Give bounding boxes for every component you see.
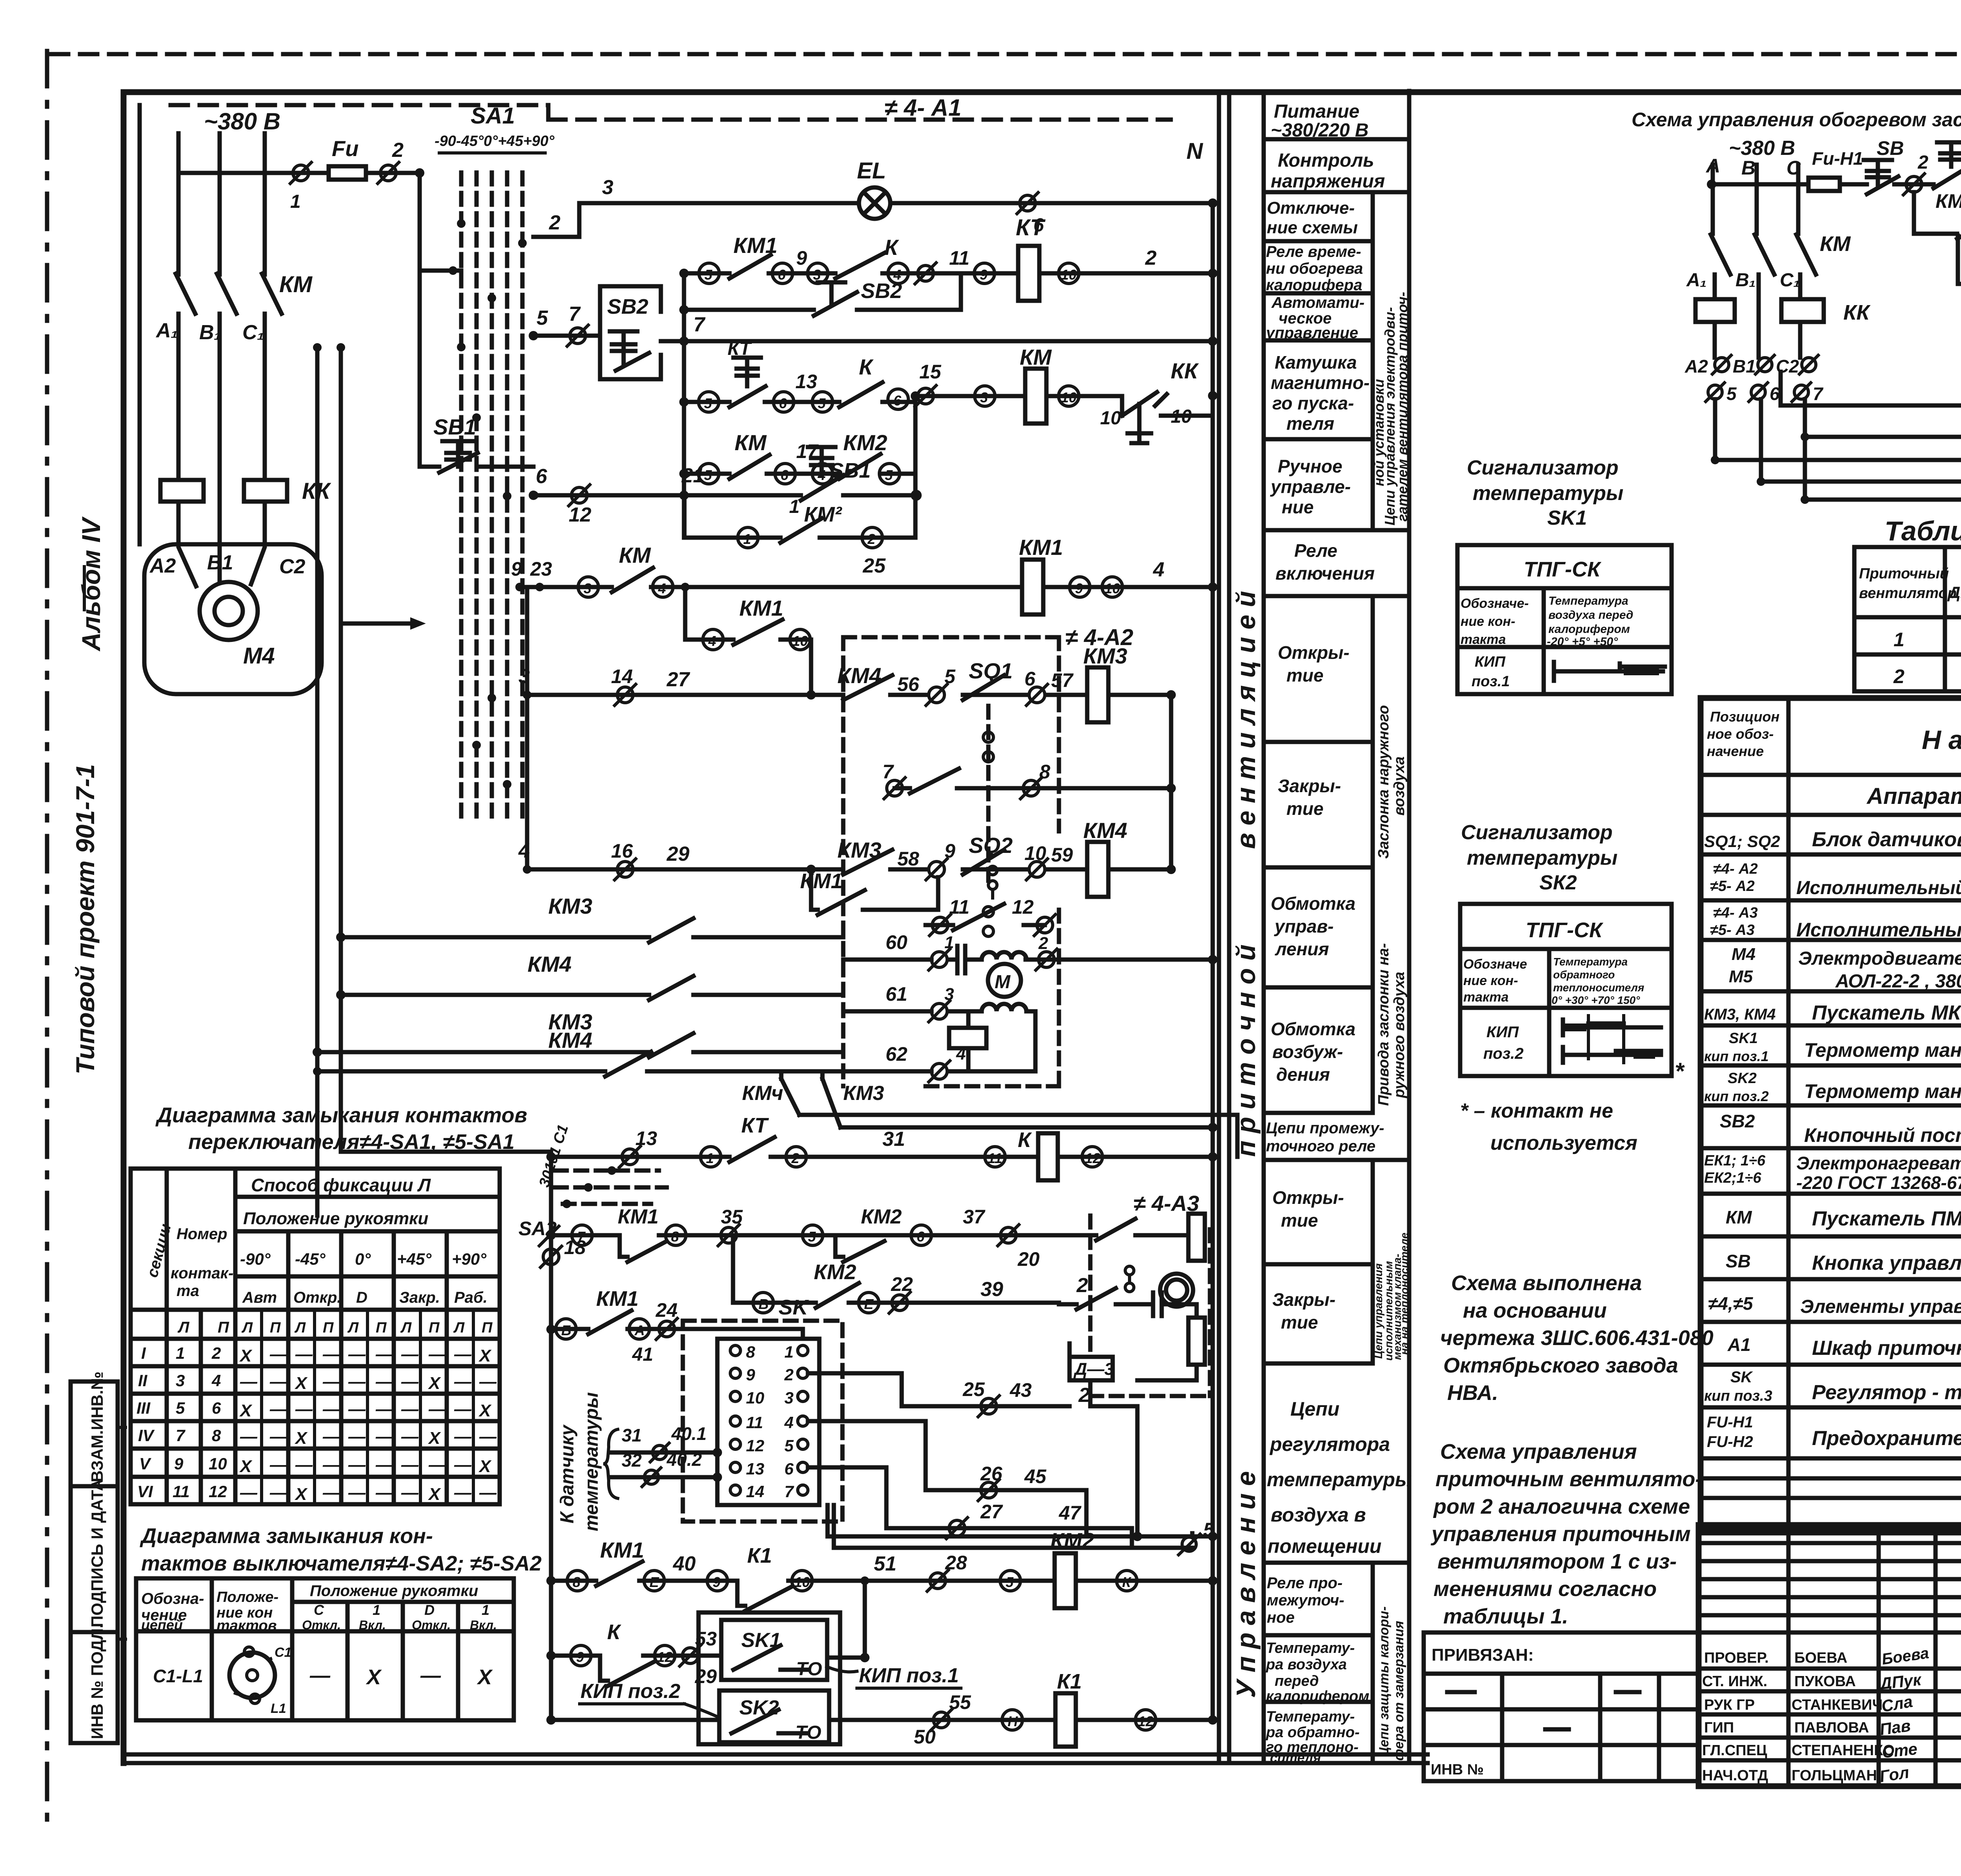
svg-text:на на теплоносителе: на на теплоносителе: [1398, 1232, 1410, 1355]
contact KM2: [835, 1235, 884, 1262]
svg-text:—: —: [240, 1483, 258, 1502]
svg-text:—: —: [322, 1455, 340, 1474]
contact bar diagrams 2: [1563, 1020, 1661, 1063]
svg-text:Привода заслонки на-: Привода заслонки на-: [1375, 943, 1392, 1106]
svg-text:управление: управление: [1265, 324, 1358, 342]
svg-text:58: 58: [897, 848, 919, 870]
svg-text:Вкл.: Вкл.: [359, 1618, 386, 1632]
svg-text:—: —: [240, 1427, 258, 1446]
svg-text:12: 12: [1138, 1713, 1153, 1729]
svg-text:—: —: [375, 1372, 393, 1391]
svg-text:Сте: Сте: [1881, 1740, 1918, 1761]
svg-text:СТЕПАНЕНКО: СТЕПАНЕНКО: [1792, 1742, 1895, 1759]
svg-text:калорифера: калорифера: [1266, 276, 1362, 294]
thermal element KK phase C: [244, 480, 287, 502]
svg-text:Диаграмма замыкания контакто: Диаграмма замыкания контактов: [155, 1103, 527, 1127]
svg-text:—: —: [479, 1427, 497, 1446]
svg-text:5: 5: [176, 1399, 185, 1417]
svg-text:—: —: [322, 1400, 340, 1419]
svg-text:ние: ние: [1282, 497, 1313, 517]
svg-text:5: 5: [704, 467, 712, 483]
svg-text:управле-: управле-: [1270, 476, 1351, 497]
svg-text:2: 2: [549, 211, 560, 234]
row Otklyuchenie skhemy: [1264, 239, 1373, 244]
svg-text:SK: SK: [1730, 1369, 1754, 1386]
svg-text:3: 3: [784, 1389, 793, 1407]
regulator terminal box: [717, 1339, 819, 1505]
svg-text:п р и т о ч н о й: п р и т о ч н о й: [1231, 944, 1261, 1157]
row Rele vklyucheniya: [1264, 594, 1409, 598]
row Obmotka upravleniya: [1264, 985, 1373, 990]
regulator output staircase wires: [808, 1373, 926, 1528]
svg-text:7: 7: [693, 313, 706, 336]
svg-text:А: А: [634, 1322, 645, 1338]
svg-text:X: X: [239, 1346, 253, 1365]
svg-text:КМ2: КМ2: [843, 430, 887, 455]
svg-text:—: —: [375, 1400, 393, 1419]
svg-text:—: —: [348, 1345, 366, 1364]
diagram 2 table frame: [136, 1578, 514, 1720]
terminal 6 on lamp wire: [1020, 195, 1035, 211]
title block outer frame: [1699, 1525, 1961, 1786]
svg-text:КК: КК: [1171, 358, 1199, 383]
svg-text:X: X: [478, 1346, 492, 1365]
svg-text:6: 6: [536, 465, 548, 488]
svg-text:L1: L1: [271, 1701, 286, 1716]
svg-text:такта: такта: [1461, 632, 1506, 647]
svg-text:КМ: КМ: [279, 272, 313, 297]
svg-text:Двигатель: Двигатель: [1947, 583, 1961, 602]
svg-text:П: П: [218, 1319, 229, 1336]
svg-text:6: 6: [779, 395, 787, 411]
svg-text:—: —: [401, 1427, 419, 1446]
contactor coil KM: [1025, 369, 1046, 424]
svg-text:Обозначе-: Обозначе-: [1461, 596, 1529, 611]
svg-text:КМ1: КМ1: [600, 1538, 644, 1562]
excitation winding rung 61: wire: [843, 1011, 1035, 1071]
svg-text:—: —: [269, 1427, 287, 1446]
svg-text:SQ1; SQ2: SQ1; SQ2: [1704, 832, 1780, 851]
wire 32/40.2: [612, 1475, 717, 1480]
svg-text:2: 2: [1893, 665, 1905, 687]
rung KM1/24 to SK: wire: [551, 1329, 803, 1351]
row Rele promezhutochnoe: [1264, 1633, 1373, 1638]
svg-text:7: 7: [882, 761, 894, 783]
svg-text:—: —: [401, 1372, 419, 1391]
svg-text:10: 10: [746, 1389, 764, 1407]
svg-text:Реле време-: Реле време-: [1266, 243, 1361, 260]
svg-text:14: 14: [611, 665, 633, 687]
svg-text:1: 1: [944, 933, 954, 952]
svg-text:ние кон-: ние кон-: [1463, 973, 1518, 988]
svg-text:КМ²: КМ²: [804, 503, 842, 526]
svg-text:Октябрьского завода: Октябрьского завода: [1443, 1354, 1678, 1377]
svg-text:регулятора: регулятора: [1269, 1433, 1390, 1455]
svg-text:2: 2: [784, 1365, 793, 1384]
contactor coil KM3: [1087, 667, 1108, 722]
svg-text:—: —: [269, 1400, 287, 1419]
svg-text:5: 5: [885, 467, 893, 483]
svg-text:Номер: Номер: [176, 1225, 227, 1243]
svg-text:29: 29: [666, 843, 689, 865]
svg-text:7: 7: [176, 1426, 186, 1445]
svg-text:9: 9: [1075, 580, 1083, 596]
svg-text:2: 2: [1076, 1274, 1088, 1297]
svg-text:Л: Л: [347, 1320, 359, 1336]
svg-text:КМ1: КМ1: [618, 1205, 659, 1228]
column lines: [136, 1578, 514, 1720]
svg-text:9: 9: [746, 1365, 755, 1384]
svg-text:Температу-: Температу-: [1266, 1709, 1355, 1725]
svg-text:SQ1: SQ1: [969, 658, 1013, 683]
svg-text:22: 22: [891, 1273, 913, 1295]
svg-text:50: 50: [914, 1726, 936, 1748]
time contact KT on rung: [729, 358, 766, 407]
svg-text:—: —: [269, 1483, 287, 1502]
svg-text:31: 31: [882, 1128, 905, 1151]
valve group rotated subcolumn: [1371, 1160, 1375, 1363]
valve actuator small contacts: [1125, 1266, 1134, 1275]
rung KM coil: wire: [684, 341, 1213, 538]
svg-text:9: 9: [980, 267, 988, 283]
svg-text:включения: включения: [1275, 563, 1375, 584]
svg-text:—: —: [375, 1345, 393, 1364]
svg-text:SK1: SK1: [1547, 507, 1587, 529]
svg-text:—: —: [479, 1483, 497, 1502]
svg-text:28: 28: [945, 1552, 967, 1574]
heater feed staircase wires: [1958, 236, 1961, 284]
svg-text:К: К: [1122, 1574, 1132, 1590]
header row line: [1701, 773, 1961, 777]
svg-text:в е н т и л я ц и е й: в е н т и л я ц и е й: [1231, 591, 1261, 849]
svg-text:10: 10: [1104, 580, 1120, 596]
row termometr 2: [1701, 1103, 1961, 1108]
table 1 grid: [1854, 547, 1961, 691]
svg-text:Ручное: Ручное: [1278, 456, 1343, 476]
relay coil KT: [1018, 246, 1039, 301]
svg-text:Схема выполнена: Схема выполнена: [1451, 1271, 1642, 1295]
svg-text:6: 6: [1770, 384, 1780, 404]
svg-text:менениями согласно: менениями согласно: [1433, 1577, 1657, 1601]
svg-text:Откл.: Откл.: [302, 1618, 341, 1632]
lamp EL: [859, 187, 890, 219]
svg-text:51: 51: [874, 1552, 897, 1575]
svg-text:такта: такта: [1463, 990, 1509, 1005]
svg-text:Сигнализатор: Сигнализатор: [1461, 821, 1613, 844]
phase drop C: [1796, 165, 1816, 299]
svg-text:X: X: [239, 1401, 253, 1420]
svg-text:Катушка: Катушка: [1275, 352, 1357, 373]
push button SB: [1864, 160, 1898, 194]
svg-text:температуры: температуры: [1267, 1469, 1412, 1491]
svg-text:Обмотка: Обмотка: [1271, 1019, 1355, 1039]
svg-text:НВА.: НВА.: [1447, 1381, 1498, 1405]
svg-text:8: 8: [212, 1426, 221, 1445]
svg-text:ИНВ № ПОДЛ.: ИНВ № ПОДЛ.: [88, 1624, 106, 1739]
svg-text:D: D: [356, 1289, 367, 1306]
svg-text:61: 61: [886, 983, 908, 1005]
svg-text:М4: М4: [243, 643, 275, 669]
svg-text:Е: Е: [864, 1296, 874, 1312]
svg-text:6: 6: [212, 1399, 221, 1417]
rotated band borders: [1229, 91, 1409, 1763]
svg-text:воздуха перед: воздуха перед: [1548, 609, 1633, 622]
svg-text:поз.1: поз.1: [1472, 673, 1510, 690]
svg-text:КИП: КИП: [1486, 1023, 1519, 1041]
button SB2 second contact: [814, 282, 857, 316]
svg-text:2: 2: [791, 1150, 799, 1166]
svg-text:5: 5: [704, 395, 712, 411]
contact K1: [737, 1581, 790, 1611]
svg-text:SA1: SA1: [471, 103, 515, 129]
svg-text:2: 2: [211, 1344, 221, 1362]
contact KM3: [843, 850, 892, 874]
rung 3/14/27 to valve box: wire: [527, 693, 1171, 697]
svg-text:РУК ГР: РУК ГР: [1704, 1697, 1755, 1713]
row ispolnitelny mekhanizm klapana: [1701, 938, 1961, 942]
thermostat SK1 box: [721, 1620, 827, 1680]
svg-text:КМ3, КМ4: КМ3, КМ4: [1704, 1006, 1776, 1023]
svg-text:Температура: Температура: [1553, 956, 1628, 968]
rung 4/16/29 KM3 SQ2 KM4 coil: wire: [527, 867, 1171, 872]
row shkaf: [1701, 1363, 1961, 1367]
valve actuator blade at 35 rung: [1081, 1214, 1197, 1240]
svg-text:Способ фиксации Л: Способ фиксации Л: [251, 1175, 431, 1195]
svg-text:ления: ления: [1275, 939, 1329, 959]
svg-text:10: 10: [792, 633, 808, 649]
svg-text:—: —: [454, 1427, 472, 1446]
svg-text:ВЗАМ.ИНВ.№: ВЗАМ.ИНВ.№: [88, 1372, 106, 1482]
svg-text:11: 11: [746, 1413, 763, 1432]
svg-text:КМ: КМ: [1020, 345, 1052, 369]
rung 7-8: wire: [895, 786, 1171, 791]
svg-text:управления приточным: управления приточным: [1430, 1522, 1691, 1546]
svg-text:КМ1: КМ1: [739, 596, 783, 620]
svg-text:ТО: ТО: [795, 1722, 821, 1743]
svg-text:КМч: КМч: [742, 1082, 783, 1105]
svg-text:FU-Н2: FU-Н2: [1707, 1433, 1753, 1451]
svg-text:Пускатель МКРО-58: Пускатель МКРО-58: [1812, 1002, 1961, 1024]
svg-text:4: 4: [1153, 558, 1164, 581]
svg-text:ЕК1; 1÷6: ЕК1; 1÷6: [1704, 1153, 1766, 1169]
fuse Fu: [329, 166, 366, 180]
contact 11-12: [953, 904, 1004, 930]
svg-text:3: 3: [602, 176, 613, 199]
svg-text:возбуж-: возбуж-: [1272, 1042, 1343, 1062]
svg-text:ра обратно-: ра обратно-: [1266, 1724, 1360, 1741]
valve actuator coil lower: [1188, 1318, 1205, 1365]
svg-text:КМ: КМ: [1820, 232, 1851, 256]
svg-text:Питание: Питание: [1274, 101, 1359, 122]
svg-text:—: —: [348, 1400, 366, 1419]
svg-text:32: 32: [622, 1450, 642, 1471]
wire 25/43: [902, 1404, 1070, 1409]
svg-text:та: та: [176, 1282, 199, 1300]
svg-text:SB2: SB2: [607, 295, 648, 318]
svg-text:ние схемы: ние схемы: [1267, 218, 1358, 237]
svg-text:дения: дения: [1276, 1064, 1330, 1085]
svg-text:8: 8: [671, 1229, 679, 1245]
contact KM4: [843, 675, 892, 700]
damper group rotated subcolumn: [1371, 596, 1375, 1113]
terminal 2: [1906, 176, 1922, 192]
svg-text:2: 2: [1145, 247, 1157, 269]
heater element KK phase A: [1695, 299, 1735, 322]
svg-text:12: 12: [657, 1649, 673, 1665]
svg-text:Отключе-: Отключе-: [1267, 198, 1355, 218]
svg-text:Цепи: Цепи: [1290, 1398, 1339, 1420]
rung 6/12/21/SB1: wire: [534, 493, 916, 498]
rung KM1 auxiliary: wire: [685, 587, 811, 695]
svg-text:Откры-: Откры-: [1278, 642, 1350, 663]
svg-text:температуры: температуры: [581, 1392, 602, 1531]
svg-text:тие: тие: [1281, 1312, 1318, 1332]
svg-text:12: 12: [746, 1436, 764, 1455]
svg-text:6: 6: [778, 267, 786, 283]
thermostat outer box: [699, 1612, 840, 1744]
svg-text:—: —: [295, 1400, 313, 1419]
contact K on KT rung: [835, 253, 884, 278]
svg-text:Приточный: Приточный: [1859, 565, 1949, 582]
svg-text:12: 12: [1012, 896, 1034, 918]
svg-text:С1: С1: [275, 1645, 291, 1660]
svg-text:ное: ное: [1267, 1609, 1295, 1626]
svg-text:КМ1: КМ1: [733, 233, 777, 258]
junction at SA1 input: [449, 266, 457, 275]
svg-text:—: —: [428, 1400, 446, 1419]
svg-text:≠4- А2: ≠4- А2: [1713, 861, 1758, 877]
valve box capacitor: [1153, 1292, 1197, 1318]
svg-text:40.1: 40.1: [671, 1423, 707, 1444]
svg-text:Температу-: Температу-: [1266, 1640, 1355, 1656]
rung 50/55/K1 coil: wire: [551, 1718, 1213, 1722]
fuse circuit wire: [178, 173, 461, 271]
svg-text:Схема управления обогревом зас: Схема управления обогревом заслонки нару…: [1632, 109, 1961, 131]
svg-text:поз.2: поз.2: [1483, 1045, 1524, 1062]
svg-text:15: 15: [919, 361, 942, 383]
rung KM2 bypass: wire: [684, 495, 915, 538]
SA1 output bus: [525, 587, 529, 869]
svg-text:КИП поз.1: КИП поз.1: [859, 1664, 959, 1687]
svg-text:SB: SB: [1726, 1251, 1751, 1271]
svg-text:—: —: [322, 1483, 340, 1502]
contact K: [839, 382, 882, 407]
row Zakrytie 1: [1264, 865, 1373, 870]
svg-text:температуры: температуры: [1467, 847, 1617, 869]
bypass contact KM1: [811, 869, 938, 915]
svg-text:VI: VI: [137, 1482, 153, 1501]
excitation inductor: [982, 1004, 1026, 1011]
svg-text:КМ3: КМ3: [837, 838, 881, 862]
svg-text:Элементы управления электрод: Элементы управления электродвигателями М…: [1800, 1296, 1961, 1317]
svg-text:С: С: [314, 1602, 324, 1618]
svg-text:9: 9: [944, 840, 955, 862]
svg-text:перед: перед: [1275, 1673, 1319, 1689]
valve actuator coil upper: [1188, 1214, 1205, 1261]
svg-text:1: 1: [373, 1602, 380, 1618]
svg-text:СТАНКЕВИЧ: СТАНКЕВИЧ: [1792, 1697, 1883, 1713]
svg-text:ПРОВЕР.: ПРОВЕР.: [1704, 1650, 1769, 1666]
svg-text:40: 40: [673, 1552, 696, 1575]
svg-text:SK1: SK1: [1729, 1030, 1758, 1047]
thermal element KK phase A: [160, 480, 204, 502]
svg-text:кип поз.3: кип поз.3: [1704, 1388, 1772, 1404]
svg-text:У п р а в л е н и е: У п р а в л е н и е: [1231, 1471, 1261, 1698]
svg-text:АОЛ-22-2 , 380В; 0,6кВт: АОЛ-22-2 , 380В; 0,6кВт: [1835, 971, 1961, 992]
svg-text:—: —: [348, 1483, 366, 1502]
phase drop A: [1711, 165, 1730, 299]
svg-text:5: 5: [818, 395, 826, 411]
svg-text:7: 7: [784, 1482, 794, 1501]
svg-text:12: 12: [1085, 1150, 1101, 1166]
svg-text:Положе-: Положе-: [216, 1589, 278, 1605]
terminal 1: [293, 165, 309, 181]
svg-text:ПУКОВА: ПУКОВА: [1794, 1673, 1856, 1690]
svg-text:Откр.: Откр.: [293, 1289, 342, 1306]
svg-text:≠4- А3: ≠4- А3: [1713, 905, 1758, 921]
svg-text:Исполнительный механизм засло: Исполнительный механизм заслонки МЭО-4/1…: [1796, 878, 1961, 898]
contactor coil KM2: [1055, 1553, 1076, 1608]
svg-text:ни обогрева: ни обогрева: [1266, 260, 1363, 277]
svg-text:3: 3: [980, 389, 988, 405]
svg-text:X: X: [239, 1457, 253, 1476]
svg-text:II: II: [138, 1371, 148, 1390]
svg-text:КМ1: КМ1: [800, 869, 842, 893]
svg-text:X: X: [427, 1485, 441, 1504]
component table column lines: [1788, 698, 1961, 1532]
svg-text:переключателя≠4-SА1, ≠5-SА1: переключателя≠4-SА1, ≠5-SА1: [188, 1130, 515, 1154]
svg-text:39: 39: [980, 1278, 1003, 1301]
svg-text:Fu: Fu: [332, 136, 358, 161]
svg-text:К датчику: К датчику: [557, 1424, 578, 1523]
svg-text:таблицы 1.: таблицы 1.: [1443, 1605, 1568, 1628]
svg-text:-90-45°0°+45+90°: -90-45°0°+45+90°: [435, 133, 555, 149]
SB2 push contact in box: [610, 331, 649, 371]
terminal 5 return: [1179, 1534, 1200, 1555]
svg-text:КМ2: КМ2: [814, 1260, 856, 1284]
svg-text:С1-L1: С1-L1: [153, 1666, 203, 1686]
svg-text:Альбом IV: Альбом IV: [76, 516, 106, 652]
svg-text:—: —: [322, 1372, 340, 1391]
svg-text:6: 6: [784, 1460, 794, 1478]
svg-text:26: 26: [980, 1463, 1003, 1485]
TPG-SK table 2: [1460, 904, 1672, 1076]
svg-text:5: 5: [1006, 1574, 1014, 1590]
svg-text:ружного воздуха: ружного воздуха: [1391, 972, 1408, 1098]
svg-text:57: 57: [1051, 669, 1074, 691]
switch SA2 dashed marks: [555, 1171, 667, 1204]
svg-text:43: 43: [1010, 1379, 1032, 1401]
terminals 5 6 7: [1708, 385, 1722, 399]
row Otkrytie 2: [1264, 1262, 1373, 1267]
svg-text:цепей: цепей: [141, 1617, 183, 1633]
svg-text:1: 1: [1894, 629, 1905, 651]
privyazan block: [1424, 1632, 1699, 1781]
svg-text:С₁: С₁: [242, 321, 264, 344]
svg-text:КМ4: КМ4: [528, 952, 571, 976]
phase bus B1: [217, 133, 236, 582]
svg-text:Цепи защиты калори-: Цепи защиты калори-: [1377, 1606, 1392, 1757]
row Tsepi promezhutochnogo rele: [1264, 1158, 1409, 1162]
svg-text:Кнопочный пост управления ПК: Кнопочный пост управления ПКЕ-212-2У3: [1804, 1124, 1961, 1146]
svg-text:ром 2 аналогична схеме: ром 2 аналогична схеме: [1433, 1495, 1690, 1518]
relay coil K: [1038, 1133, 1058, 1180]
svg-text:—: —: [454, 1345, 472, 1364]
svg-text:НАЧ.ОТД: НАЧ.ОТД: [1702, 1767, 1768, 1784]
svg-text:ТПГ-СК: ТПГ-СК: [1524, 558, 1602, 581]
svg-text:4: 4: [784, 1413, 793, 1432]
rung SA2/KM1/35/KM2/37 to valve: wire: [551, 1233, 1081, 1238]
